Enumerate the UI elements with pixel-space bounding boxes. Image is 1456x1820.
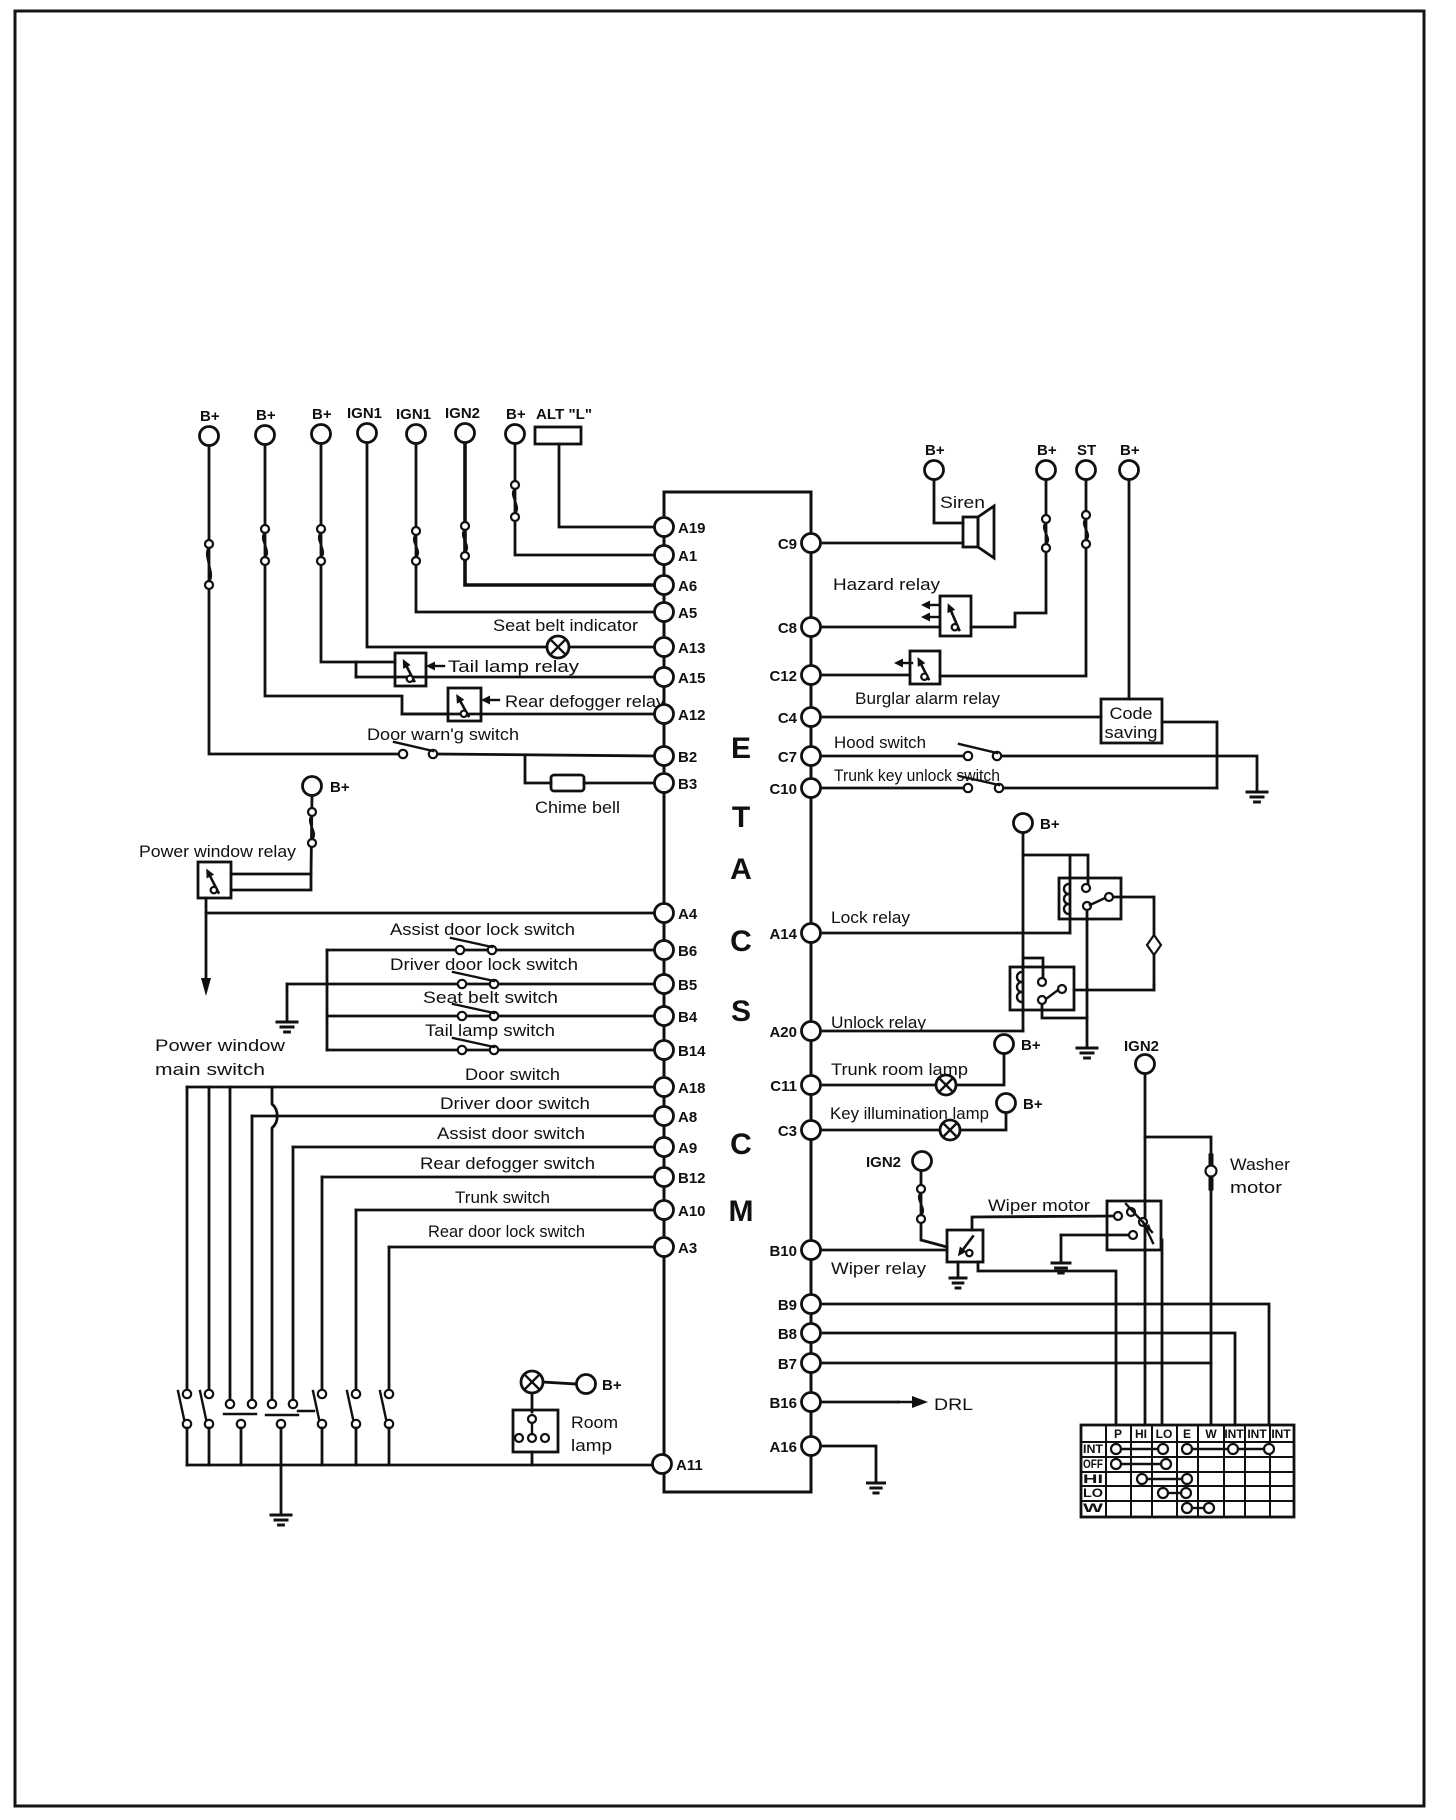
fuse on ST	[1082, 511, 1090, 548]
pin A4	[655, 904, 698, 924]
svg-text:Code: Code	[1110, 704, 1153, 723]
svg-text:C8: C8	[778, 620, 797, 637]
wire B12 row	[322, 1176, 657, 1179]
fuse on B+4	[511, 481, 519, 521]
svg-text:INT: INT	[1247, 1427, 1267, 1441]
wire rear door lock switch column	[388, 1247, 391, 1390]
pin C7	[778, 747, 821, 767]
wire A10 row	[356, 1209, 657, 1212]
svg-text:P: P	[1114, 1427, 1122, 1441]
wire IGN1b to A5	[416, 444, 657, 612]
svg-text:B10: B10	[769, 1243, 797, 1260]
pin A18	[655, 1078, 706, 1098]
pin C12	[769, 666, 820, 686]
wire door switch 2 drop	[208, 1428, 211, 1465]
terminal IGN1 a	[347, 405, 382, 443]
svg-text:C11: C11	[770, 1078, 797, 1095]
svg-text:A15: A15	[678, 670, 706, 687]
pin A6	[655, 576, 698, 596]
svg-text:C10: C10	[769, 781, 797, 798]
svg-text:Trunk switch: Trunk switch	[455, 1188, 550, 1207]
pin A20	[769, 1022, 820, 1042]
wire B5 row	[287, 983, 657, 986]
svg-text:Power window: Power window	[155, 1036, 286, 1055]
seat belt switch	[453, 1004, 498, 1020]
svg-text:A14: A14	[769, 926, 797, 943]
svg-text:C12: C12	[769, 668, 797, 685]
wiper motor connector	[1107, 1201, 1161, 1250]
wire code saving to trunk key switch	[1162, 722, 1217, 788]
wire C4 to code saving	[823, 716, 1101, 719]
room lamp bulb	[521, 1371, 543, 1393]
wire B+ to siren	[934, 480, 963, 523]
svg-text:Wiper relay: Wiper relay	[831, 1259, 927, 1278]
trunk room lamp	[936, 1075, 956, 1095]
wire rear defogger switch drop	[321, 1428, 324, 1465]
wire door switch 1 drop	[186, 1428, 189, 1465]
svg-text:C3: C3	[778, 1123, 797, 1140]
svg-text:W: W	[1083, 1501, 1104, 1515]
pin B14	[655, 1041, 707, 1061]
svg-text:IGN2: IGN2	[445, 405, 480, 422]
svg-text:A9: A9	[678, 1140, 697, 1157]
assist door lock switch	[451, 938, 496, 954]
wire B+ branch to lock relay	[1023, 855, 1088, 888]
wire bus ground stem	[280, 1465, 283, 1513]
svg-text:IGN2: IGN2	[866, 1154, 901, 1171]
wire A8 row	[252, 1115, 657, 1118]
pin A15	[655, 668, 706, 688]
svg-text:Rear defogger relay: Rear defogger relay	[505, 692, 666, 711]
wire door switch column 3	[229, 1087, 232, 1400]
terminal B+ siren	[925, 442, 945, 480]
wire A9 row	[293, 1146, 657, 1149]
ground A16	[868, 1483, 885, 1493]
svg-text:Wiper motor: Wiper motor	[988, 1196, 1090, 1215]
wire B16 to DRL	[823, 1401, 898, 1404]
wire assist door switch column	[292, 1147, 295, 1400]
table contacts row OFF	[1111, 1459, 1171, 1469]
svg-text:T: T	[732, 801, 750, 834]
svg-text:B+: B+	[1040, 816, 1060, 833]
pin A8	[655, 1107, 698, 1127]
pin C3	[778, 1121, 821, 1141]
door warning switch	[394, 742, 437, 758]
svg-text:INT: INT	[1271, 1427, 1291, 1441]
wire door switch column 1	[186, 1087, 189, 1390]
wire C7 to hood switch	[823, 755, 968, 758]
svg-text:B6: B6	[678, 943, 697, 960]
svg-text:Hood switch: Hood switch	[834, 733, 926, 752]
wire B+3 to tail lamp relay	[321, 444, 395, 662]
arrow burglar alarm output	[894, 659, 912, 668]
svg-text:C9: C9	[778, 536, 797, 553]
terminal B+ code saving	[1120, 442, 1140, 480]
svg-text:B+: B+	[312, 406, 332, 423]
pin C8	[778, 618, 821, 638]
wire wiper relay to wiper motor	[972, 1216, 1114, 1230]
wire B9 to table INT2	[823, 1304, 1269, 1425]
wire chime bell to B3	[584, 782, 657, 785]
wire B8 to table INT1	[823, 1333, 1235, 1425]
wire door lock switch bus	[326, 950, 329, 1050]
wire wiper relay output to table P	[978, 1262, 1116, 1425]
svg-text:A4: A4	[678, 906, 698, 923]
wire key illumination lamp to B+	[960, 1113, 1006, 1130]
svg-text:Assist door lock switch: Assist door lock switch	[390, 920, 575, 939]
trunk switch contacts	[347, 1390, 360, 1428]
table contacts row HI	[1137, 1474, 1192, 1484]
terminal B+ key illumination	[997, 1094, 1043, 1114]
fuse on B+5	[308, 808, 316, 847]
ground for switch bus	[271, 1515, 291, 1525]
svg-text:Door warn'g switch: Door warn'g switch	[367, 725, 519, 744]
wire trunk room lamp to B+	[956, 1054, 1004, 1085]
wire unlock relay contact to ground line	[1042, 1003, 1087, 1018]
wire room lamp bulb to B+	[543, 1382, 576, 1384]
pin B2	[655, 747, 698, 767]
svg-text:A5: A5	[678, 605, 697, 622]
svg-text:Chime bell: Chime bell	[535, 798, 620, 817]
terminal B+ room lamp	[577, 1375, 622, 1395]
wire diode to unlock relay contact	[1074, 985, 1154, 990]
svg-text:B9: B9	[778, 1297, 797, 1314]
pin A11	[653, 1455, 703, 1475]
door switch 1	[178, 1390, 191, 1428]
svg-text:LO: LO	[1083, 1486, 1103, 1500]
wire B4 row	[327, 1015, 657, 1018]
svg-text:E: E	[1183, 1427, 1191, 1441]
svg-text:A20: A20	[769, 1024, 797, 1041]
pin A3	[655, 1238, 698, 1258]
svg-text:Trunk key unlock switch: Trunk key unlock switch	[834, 766, 1000, 785]
terminal B+ 4	[506, 406, 526, 444]
svg-text:HI: HI	[1135, 1427, 1147, 1441]
wire A18 row	[187, 1086, 657, 1089]
svg-text:B2: B2	[678, 749, 697, 766]
svg-text:B+: B+	[200, 408, 220, 425]
pin C10	[769, 779, 820, 799]
arrow to power window main switch	[201, 978, 211, 996]
ganged driver door switch pair	[224, 1400, 256, 1428]
wire A14 row	[823, 932, 1070, 935]
pin B12	[655, 1168, 706, 1188]
wire B+4 to A1	[515, 444, 657, 555]
table contacts row LO	[1158, 1488, 1191, 1498]
wire driver door switch column	[251, 1116, 254, 1400]
svg-text:INT: INT	[1083, 1442, 1104, 1456]
svg-text:Assist door switch: Assist door switch	[437, 1124, 585, 1143]
pin B7	[778, 1354, 821, 1374]
svg-text:B4: B4	[678, 1009, 698, 1026]
wire power window relay lower feed	[231, 874, 311, 890]
wire A3 row	[389, 1246, 657, 1249]
svg-text:S: S	[731, 995, 751, 1028]
fuse on hazard B+	[1042, 515, 1050, 552]
terminal IGN2 washer	[1124, 1038, 1159, 1074]
wire power window relay to A4	[206, 898, 657, 913]
svg-text:Door switch: Door switch	[465, 1065, 560, 1084]
wire B+5 to power window relay	[231, 796, 312, 874]
pin B16	[769, 1393, 820, 1413]
svg-text:Rear defogger switch: Rear defogger switch	[420, 1154, 595, 1173]
svg-text:A11: A11	[676, 1457, 703, 1474]
svg-text:Power window relay: Power window relay	[139, 842, 297, 861]
svg-text:INT: INT	[1224, 1427, 1244, 1441]
svg-text:Lock relay: Lock relay	[831, 908, 911, 927]
svg-text:B+: B+	[1037, 442, 1057, 459]
svg-text:DRL: DRL	[934, 1395, 973, 1414]
terminal ALT "L"	[535, 406, 592, 444]
wire IGN2 right to table HI	[1144, 1074, 1147, 1425]
ground for door lock switches	[277, 1022, 297, 1032]
wiper switch continuity table	[1081, 1425, 1294, 1517]
wire room lamp to bus	[531, 1452, 534, 1465]
ground wiper relay	[950, 1278, 966, 1288]
svg-text:A18: A18	[678, 1080, 706, 1097]
fuse on IGN2	[461, 522, 469, 560]
svg-text:B16: B16	[769, 1395, 797, 1412]
svg-text:saving: saving	[1105, 723, 1158, 742]
svg-text:A: A	[730, 853, 752, 886]
wire trunk key unlock switch to code saving	[999, 787, 1217, 790]
svg-text:C: C	[730, 925, 752, 958]
svg-text:Driver door switch: Driver door switch	[440, 1094, 590, 1113]
svg-text:B7: B7	[778, 1356, 797, 1373]
svg-text:A19: A19	[678, 520, 706, 537]
wire door warning switch to B2	[437, 754, 657, 756]
fuse on B+1	[205, 540, 213, 589]
svg-text:ALT "L": ALT "L"	[536, 406, 592, 423]
wire door switch column 4 (jog over A8 row)	[272, 1087, 277, 1400]
pin B9	[778, 1295, 821, 1315]
terminal IGN1 b	[396, 406, 431, 444]
svg-text:Burglar alarm relay: Burglar alarm relay	[855, 689, 1000, 708]
pin A16	[769, 1437, 820, 1457]
power window relay	[198, 862, 231, 898]
hood switch	[959, 744, 1001, 760]
wire B+1 to door warning switch	[209, 446, 399, 754]
svg-text:lamp: lamp	[571, 1436, 612, 1455]
svg-text:ST: ST	[1077, 442, 1096, 459]
wire seat belt indicator to A13	[569, 646, 657, 649]
diode on lock relay output	[1147, 935, 1161, 990]
pin B5	[655, 975, 698, 995]
svg-text:B12: B12	[678, 1170, 706, 1187]
svg-text:motor: motor	[1230, 1178, 1282, 1197]
wire C10 to trunk key unlock switch	[823, 787, 968, 790]
svg-text:C: C	[730, 1128, 752, 1161]
svg-text:B+: B+	[1120, 442, 1140, 459]
lock relay	[1059, 878, 1121, 919]
wire wiper relay ground stem	[957, 1262, 960, 1277]
wire C3 to key illumination lamp	[823, 1129, 940, 1132]
svg-text:A6: A6	[678, 578, 697, 595]
rear defogger relay	[448, 688, 481, 721]
ground lock-unlock relays	[1077, 1048, 1097, 1058]
wire rear defogger switch column	[321, 1177, 324, 1390]
wire B+ to hazard relay	[971, 480, 1046, 627]
wire C8 to hazard relay	[823, 626, 940, 629]
arrow hazard output upper	[921, 601, 939, 610]
svg-text:M: M	[729, 1195, 754, 1228]
pin B3	[655, 774, 698, 794]
ground hood switch	[1247, 792, 1267, 802]
fuse on B+3	[317, 525, 325, 565]
wire B6 row	[327, 949, 657, 952]
svg-text:Seat belt indicator: Seat belt indicator	[493, 616, 638, 635]
svg-text:W: W	[1205, 1427, 1217, 1441]
terminal B+ hazard	[1037, 442, 1057, 480]
wire wiper motor ground feed	[1061, 1234, 1129, 1237]
wire A12 row	[402, 713, 657, 716]
svg-text:B8: B8	[778, 1326, 797, 1343]
wire ground bus to A11	[187, 1464, 652, 1467]
wire power window relay to main switch	[205, 913, 208, 984]
fuse on IGN1b	[412, 527, 420, 565]
tail lamp relay	[395, 653, 426, 686]
wire C12 to burglar alarm relay	[823, 674, 910, 677]
fuse on IGN2 left	[917, 1185, 925, 1223]
terminal B+ lock relay	[1014, 814, 1060, 834]
terminal ST	[1077, 442, 1097, 480]
svg-text:A3: A3	[678, 1240, 697, 1257]
unlock relay	[1010, 967, 1074, 1010]
wire C11 to trunk room lamp	[823, 1084, 936, 1087]
svg-text:Siren: Siren	[940, 493, 985, 512]
wire B14 row	[327, 1049, 657, 1052]
terminal B+ power window	[303, 777, 350, 797]
svg-text:Tail lamp relay: Tail lamp relay	[448, 657, 580, 676]
svg-text:A13: A13	[678, 640, 706, 657]
wire driver pair drop	[240, 1428, 243, 1465]
svg-text:A8: A8	[678, 1109, 697, 1126]
wire C9 to siren	[823, 542, 963, 545]
wire trunk switch column	[355, 1210, 358, 1390]
code saving box	[1101, 699, 1162, 743]
svg-text:Driver door lock switch: Driver door lock switch	[390, 955, 578, 974]
pin A5	[655, 603, 698, 623]
svg-text:B+: B+	[330, 779, 350, 796]
wire tail lamp relay step	[355, 662, 358, 677]
wire IGN2 branch to washer motor	[1145, 1137, 1211, 1425]
arrow to rear defogger relay	[481, 696, 499, 705]
wire IGN1a to seat belt indicator	[367, 443, 547, 647]
wire B+ to unlock coil and A20	[1022, 833, 1025, 1031]
door switch 2	[200, 1390, 213, 1428]
svg-text:C4: C4	[778, 710, 798, 727]
pin A9	[655, 1138, 698, 1158]
svg-text:Hazard relay: Hazard relay	[833, 575, 941, 594]
arrow to tail lamp relay	[426, 662, 444, 671]
wire B5 row ground drop	[286, 984, 289, 1020]
pin B4	[655, 1007, 698, 1027]
wire unlock relay top contact feed	[1023, 958, 1043, 978]
fuse on B+2	[261, 525, 269, 565]
terminal B+ trunk room lamp	[995, 1035, 1041, 1055]
wire wiper motor ground stem	[1060, 1235, 1063, 1262]
ganged assist door switch pair	[266, 1400, 298, 1428]
wire lock relay contact to ground	[1086, 910, 1089, 1046]
seat belt indicator lamp	[547, 636, 569, 658]
wire B7 to washer line	[823, 1362, 1211, 1365]
wire wiper motor output to table LO	[1161, 1240, 1164, 1425]
svg-text:Washer: Washer	[1230, 1155, 1290, 1174]
wire B10 to wiper relay	[823, 1249, 947, 1252]
svg-text:A1: A1	[678, 548, 697, 565]
pin A13	[655, 638, 706, 658]
wire A20 row	[823, 1030, 1023, 1033]
svg-text:B5: B5	[678, 977, 697, 994]
hazard relay	[940, 596, 971, 636]
svg-text:B+: B+	[1021, 1037, 1041, 1054]
svg-text:A16: A16	[769, 1439, 797, 1456]
pin C11	[770, 1076, 820, 1096]
svg-text:B+: B+	[506, 406, 526, 423]
pin C9	[778, 534, 821, 554]
svg-text:HI: HI	[1083, 1472, 1103, 1486]
wire trunk switch drop	[355, 1428, 358, 1465]
siren speaker symbol	[963, 506, 994, 558]
wire assist pair drop	[280, 1428, 283, 1465]
linkage tick to rear defogger switch	[298, 1410, 314, 1412]
wire IGN2 to A6	[465, 443, 657, 585]
svg-text:B+: B+	[602, 1377, 622, 1394]
rear defogger switch contacts	[313, 1390, 326, 1428]
svg-text:A12: A12	[678, 707, 706, 724]
wire hood switch to ground	[997, 756, 1257, 790]
wiper relay	[947, 1230, 983, 1262]
terminal IGN2 top	[445, 405, 480, 443]
pin A12	[655, 705, 706, 725]
svg-text:OFF: OFF	[1083, 1457, 1103, 1471]
svg-text:LO: LO	[1156, 1427, 1173, 1441]
pin B10	[769, 1241, 820, 1261]
pin A14	[769, 924, 820, 944]
svg-text:IGN2: IGN2	[1124, 1038, 1159, 1055]
terminal B+ 3	[312, 406, 332, 444]
svg-text:B+: B+	[256, 407, 276, 424]
pin B8	[778, 1324, 821, 1344]
ground wiper motor	[1052, 1263, 1070, 1273]
svg-text:A10: A10	[678, 1203, 706, 1220]
wire B+2 to rear defogger relay	[265, 445, 448, 714]
wire A15 row	[356, 676, 657, 679]
wire A16 to ground	[823, 1446, 876, 1481]
svg-text:IGN1: IGN1	[396, 406, 431, 423]
pin B6	[655, 941, 698, 961]
svg-text:B3: B3	[678, 776, 697, 793]
rear door lock switch contacts	[380, 1390, 393, 1428]
washer motor symbol	[1206, 1156, 1217, 1188]
wire B+ to code saving	[1128, 480, 1131, 699]
svg-text:Rear door lock switch: Rear door lock switch	[428, 1222, 585, 1241]
wire lock relay output via diode	[1113, 897, 1154, 985]
wire B2 branch to chime bell	[525, 755, 551, 783]
table contacts row W	[1182, 1503, 1214, 1513]
key illumination lamp	[940, 1120, 960, 1140]
wire rear door lock switch drop	[388, 1428, 391, 1465]
svg-text:Trunk room lamp: Trunk room lamp	[831, 1060, 968, 1079]
room lamp switch box	[513, 1410, 558, 1452]
svg-text:Room: Room	[571, 1413, 618, 1432]
burglar alarm relay	[910, 651, 940, 684]
wire room lamp bulb to switch box	[531, 1393, 534, 1412]
wire ALT L to A19	[559, 444, 657, 527]
svg-text:B14: B14	[678, 1043, 706, 1060]
wire lock coil feed	[1069, 855, 1072, 933]
svg-text:Tail lamp switch: Tail lamp switch	[425, 1021, 555, 1040]
